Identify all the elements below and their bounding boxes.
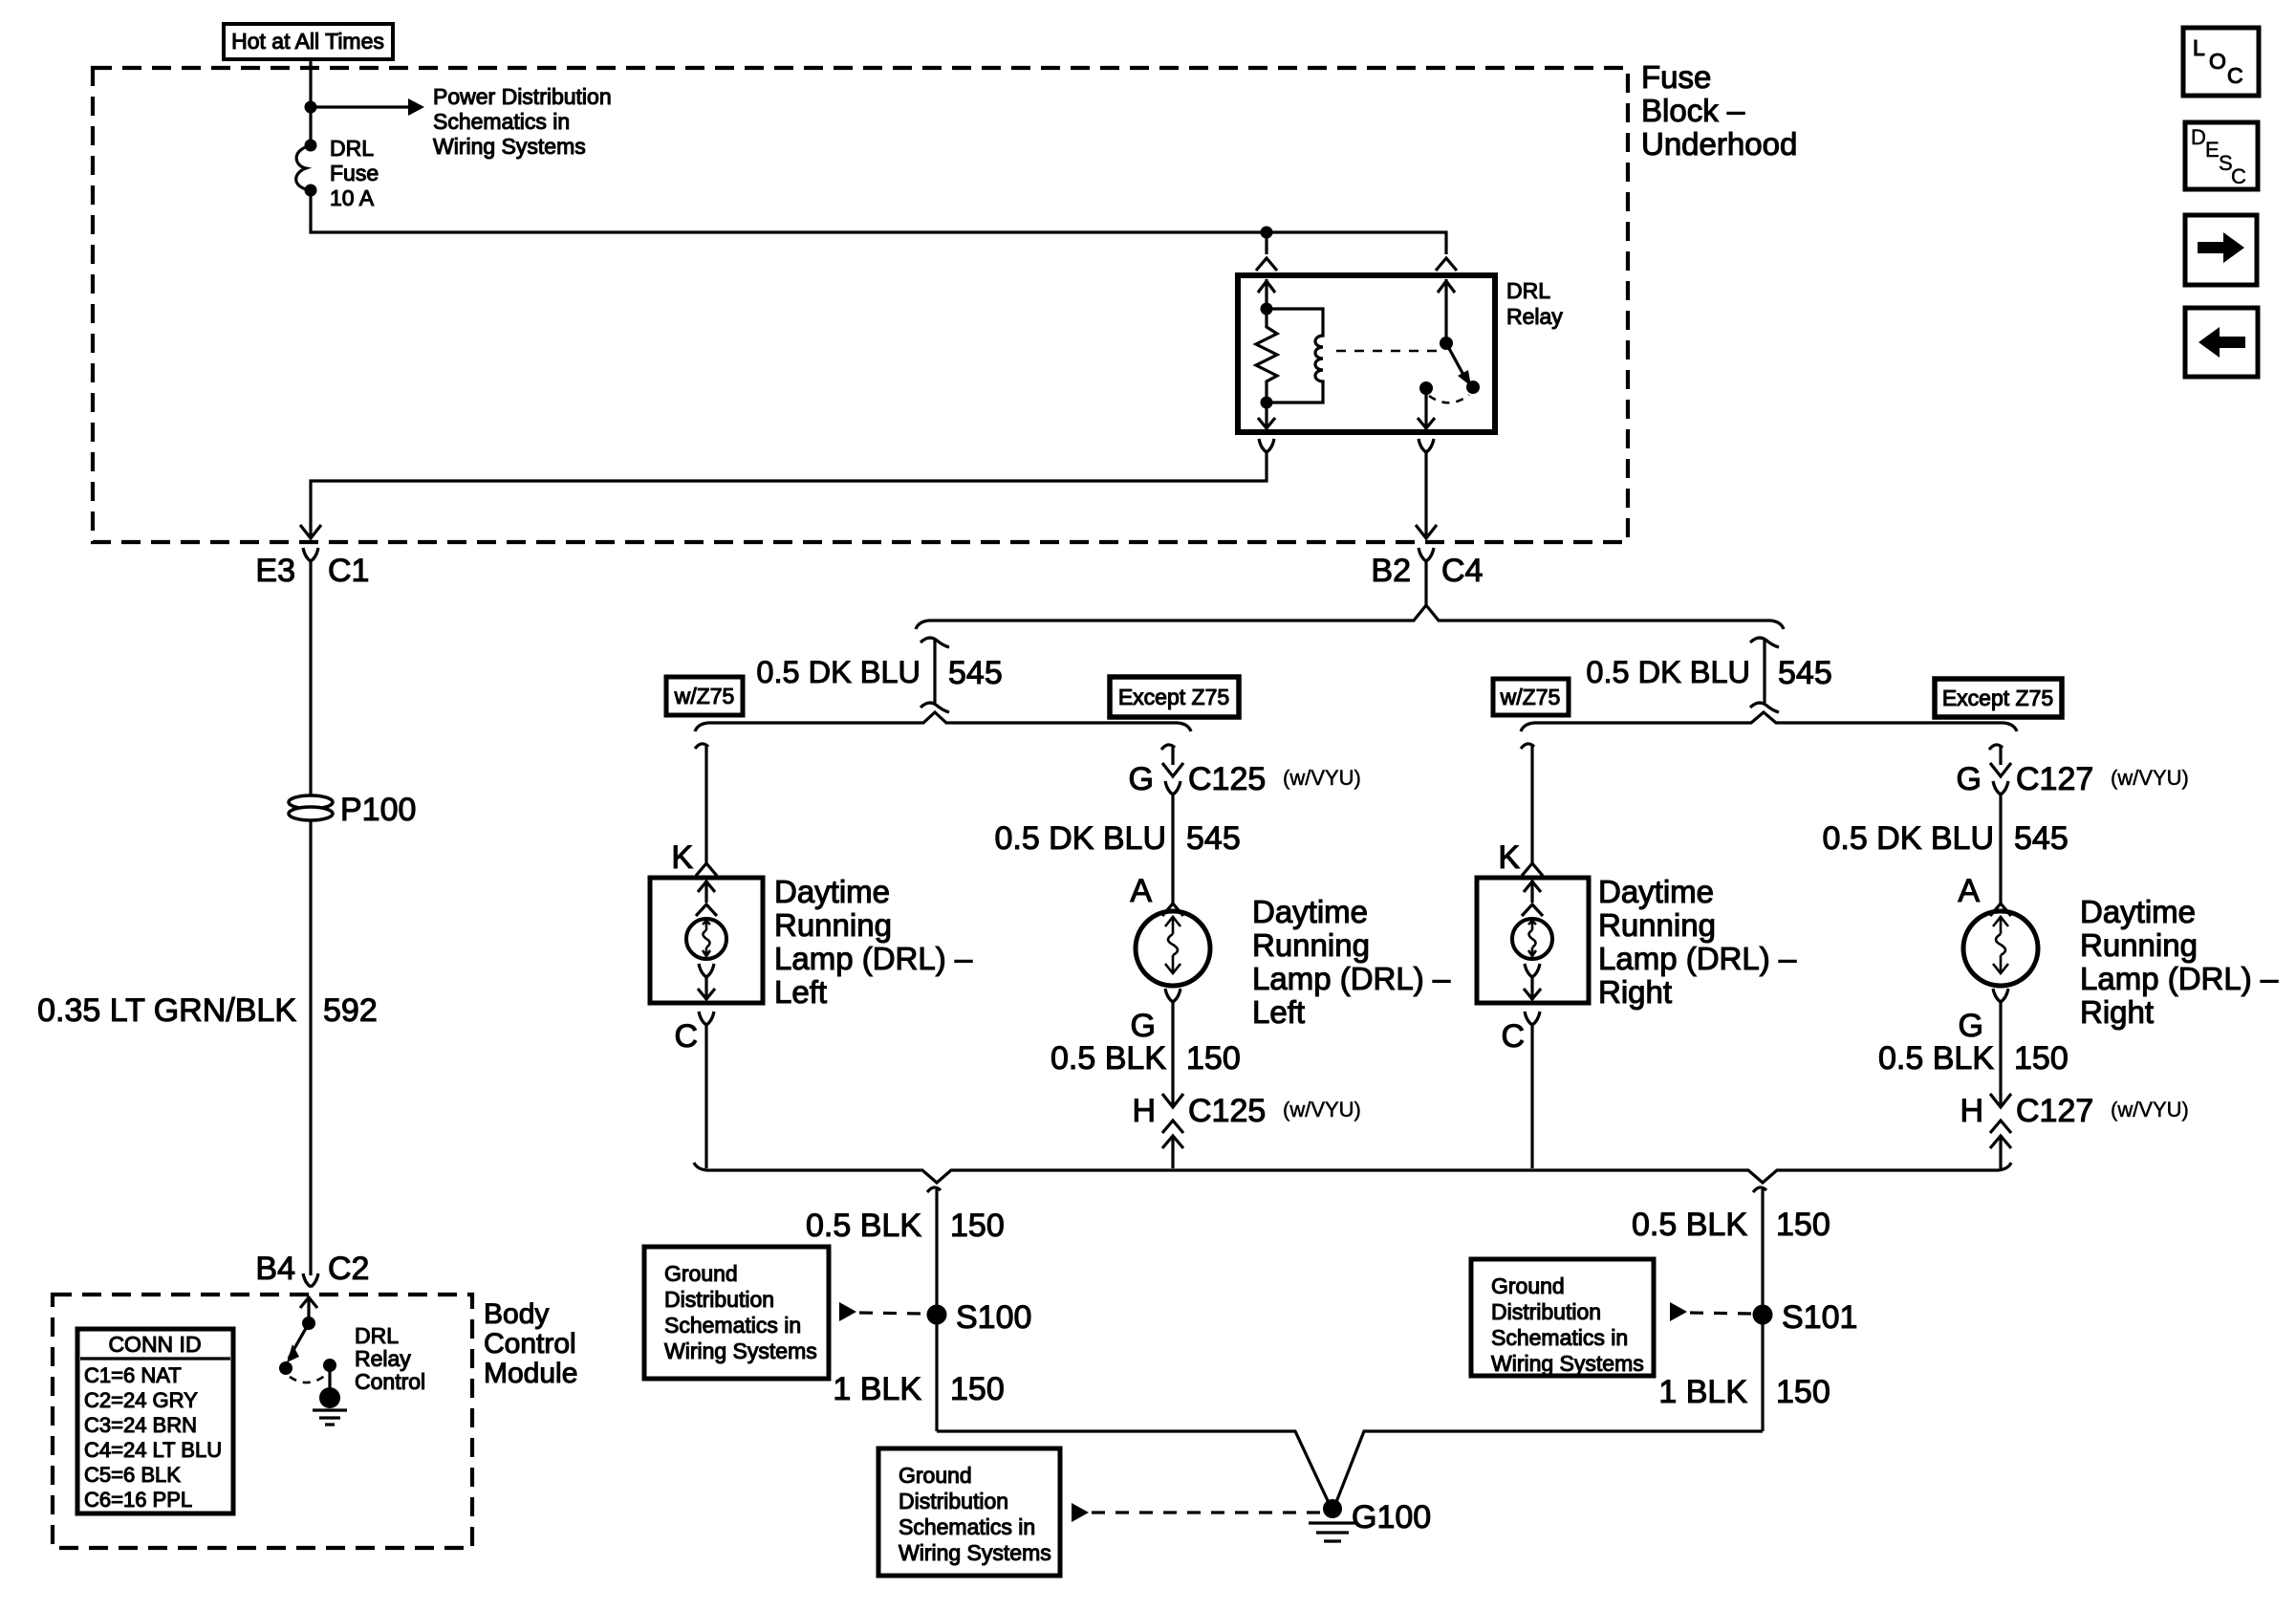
svg-text:Control: Control — [484, 1328, 576, 1360]
svg-text:G: G — [1131, 1008, 1156, 1044]
connector C127 arrowhead H — [1990, 1094, 2011, 1107]
svg-text:Left: Left — [774, 974, 827, 1010]
svg-text:C4=24 LT BLU: C4=24 LT BLU — [84, 1438, 222, 1462]
bulb circle left lamp — [686, 919, 726, 959]
svg-text:C4: C4 — [1441, 553, 1483, 589]
connector chevron above relay coil pin — [1256, 258, 1277, 271]
connector C125 double chevron — [1162, 1121, 1183, 1148]
svg-text:G: G — [1959, 1008, 1983, 1044]
svg-text:w/Z75: w/Z75 — [1500, 685, 1561, 709]
connector fork below bulb G right — [1993, 989, 2008, 1002]
svg-text:0.5 DK BLU: 0.5 DK BLU — [756, 655, 921, 689]
BCM switch contact node left — [279, 1361, 292, 1375]
relay internal junction bottom — [1261, 397, 1273, 409]
connector fork below fuse block E3/C1 — [303, 548, 318, 561]
wire S101 drop hook — [1753, 1187, 1766, 1431]
wire branch2 top hook — [1161, 745, 1175, 765]
svg-text:Hot at All Times: Hot at All Times — [231, 29, 384, 54]
connector chevron at lamp pin A — [1162, 903, 1183, 916]
bulb circle left lamp (except Z75) — [1136, 911, 1210, 986]
svg-text:0.5 BLK: 0.5 BLK — [1632, 1207, 1747, 1243]
svg-text:Daytime: Daytime — [774, 874, 890, 909]
svg-text:Relay: Relay — [355, 1346, 411, 1371]
svg-text:Fuse: Fuse — [1641, 59, 1711, 95]
lamp right inner chevron — [1522, 904, 1543, 916]
bulb circle right lamp (except Z75) — [1963, 911, 2038, 986]
wire branch3 down to ground brace — [1530, 1025, 1533, 1168]
splice S101 — [1753, 1305, 1773, 1325]
label B4 C2 — [255, 1251, 369, 1287]
svg-text:592: 592 — [323, 992, 378, 1029]
ground distribution ref box left — [644, 1247, 829, 1379]
svg-text:D: D — [2191, 125, 2206, 149]
label H C127 (w/VYU) — [1960, 1093, 2188, 1129]
svg-text:C127: C127 — [2016, 1093, 2093, 1129]
connector C127 double chevron — [1990, 1121, 2011, 1148]
svg-text:Distribution: Distribution — [1491, 1299, 1601, 1324]
svg-text:Right: Right — [2080, 994, 2154, 1030]
svg-text:H: H — [1132, 1093, 1156, 1129]
CONN ID table — [77, 1329, 233, 1513]
connector fork below right lamp C — [1525, 1012, 1540, 1025]
BCM switch arm with arrowhead — [287, 1323, 309, 1362]
svg-text:Schematics in: Schematics in — [899, 1514, 1035, 1539]
svg-text:C5=6 BLK: C5=6 BLK — [84, 1463, 181, 1487]
fuse DRL Fuse 10A — [296, 140, 317, 197]
svg-text:P100: P100 — [340, 792, 416, 828]
svg-text:O: O — [2209, 49, 2226, 74]
svg-text:C1=6 NAT: C1=6 NAT — [84, 1363, 182, 1387]
svg-text:Right: Right — [1598, 974, 1672, 1010]
svg-text:0.5 BLK: 0.5 BLK — [1051, 1040, 1166, 1077]
DRL lamp right housing box — [1477, 878, 1589, 1003]
label 0.5 BLK 150 at S101 — [1632, 1207, 1830, 1243]
BCM switch contact node right — [323, 1359, 336, 1372]
svg-text:w/Z75: w/Z75 — [674, 684, 735, 708]
svg-text:Schematics in: Schematics in — [664, 1313, 801, 1338]
svg-text:C6=16 PPL: C6=16 PPL — [84, 1488, 192, 1512]
svg-text:C: C — [674, 1018, 698, 1055]
label Daytime Running Lamp (DRL) - Right 2 — [2080, 894, 2279, 1030]
BCM switch dashed throw arc — [290, 1375, 326, 1382]
left arrow legend box — [2185, 308, 2258, 377]
wire branch2 mid — [1171, 795, 1174, 903]
svg-text:Daytime: Daytime — [1598, 874, 1714, 909]
svg-text:A: A — [1958, 873, 1980, 909]
label Daytime Running Lamp (DRL) - Right — [1598, 874, 1797, 1010]
svg-text:Running: Running — [2080, 927, 2198, 963]
connector fork below bulb G — [1165, 989, 1180, 1002]
relay coil pin 86 wire with up arrow — [1258, 279, 1275, 309]
svg-text:Schematics in: Schematics in — [433, 109, 570, 134]
svg-text:S101: S101 — [1782, 1299, 1857, 1336]
relay switch dashed throw arc — [1429, 395, 1469, 403]
DRL relay box — [1238, 275, 1495, 432]
connector C127 arrowhead G — [1990, 763, 2011, 776]
main splitter brace — [916, 605, 1784, 629]
svg-text:Fuse: Fuse — [330, 161, 379, 185]
label H C125 (w/VYU) — [1132, 1093, 1360, 1129]
svg-text:1 BLK: 1 BLK — [833, 1371, 921, 1407]
label Daytime Running Lamp (DRL) - Left — [774, 874, 973, 1010]
svg-text:150: 150 — [2014, 1040, 2069, 1077]
svg-text:0.5 DK BLU: 0.5 DK BLU — [1822, 820, 1994, 857]
label DRL Relay Control — [355, 1323, 425, 1394]
label G C127 (w/VYU) — [1957, 761, 2189, 797]
svg-text:Left: Left — [1252, 994, 1305, 1030]
ground distribution ref box bottom — [878, 1448, 1060, 1576]
svg-text:B4: B4 — [255, 1251, 295, 1287]
svg-text:Schematics in: Schematics in — [1491, 1325, 1628, 1350]
svg-text:Lamp (DRL) –: Lamp (DRL) – — [774, 941, 973, 976]
svg-text:Block –: Block – — [1641, 93, 1745, 128]
svg-text:S100: S100 — [956, 1299, 1031, 1336]
svg-text:0.5 BLK: 0.5 BLK — [1878, 1040, 1994, 1077]
label Body Control Module — [484, 1298, 577, 1389]
svg-text:DRL: DRL — [1506, 278, 1550, 303]
lamp right pin wire arrow down — [1524, 977, 1541, 1000]
label 0.5 DK BLU 545 branch2 — [994, 820, 1240, 857]
junction node at power feed — [305, 101, 317, 114]
connector C125 arrowhead G — [1162, 763, 1183, 776]
relay switch output node — [1419, 381, 1433, 395]
lamp right pin wire arrow up — [1524, 881, 1541, 903]
label DRL Fuse 10 A — [330, 136, 379, 210]
label E3 C1 — [255, 553, 369, 589]
wire from relay output to B2 — [1424, 452, 1427, 536]
svg-text:C125: C125 — [1188, 1093, 1266, 1129]
relay internal junction top — [1261, 303, 1273, 316]
svg-text:Except Z75: Except Z75 — [1118, 685, 1229, 709]
wire branch4 mid — [1999, 795, 2002, 903]
Except Z75 box right — [1935, 679, 2062, 717]
Except Z75 box left — [1110, 677, 1239, 717]
svg-text:A: A — [1130, 873, 1152, 909]
ground gathering brace — [694, 1163, 2011, 1183]
svg-text:G: G — [1129, 761, 1154, 797]
svg-text:(w/VYU): (w/VYU) — [1283, 766, 1361, 790]
wire branch4 to ground brace — [1999, 1136, 2002, 1168]
svg-text:C127: C127 — [2016, 761, 2093, 797]
wire from B2/C4 to splitter — [1424, 561, 1427, 605]
wire branch3 top hook — [1521, 744, 1534, 863]
relay switch pivot node — [1440, 337, 1453, 350]
svg-text:Ground: Ground — [664, 1261, 738, 1286]
svg-text:E: E — [2205, 138, 2220, 162]
bulb circle right lamp — [1512, 919, 1552, 959]
label 1 BLK 150 at S101 — [1658, 1374, 1830, 1410]
junction node above relay — [1261, 227, 1273, 239]
lamp right fork below bulb — [1525, 964, 1540, 977]
svg-text:C125: C125 — [1188, 761, 1266, 797]
svg-text:CONN ID: CONN ID — [108, 1332, 201, 1357]
svg-text:Daytime: Daytime — [1252, 894, 1368, 929]
svg-text:Ground: Ground — [899, 1463, 972, 1488]
connector fork below relay coil pin — [1259, 439, 1274, 452]
connector C125 fork — [1165, 781, 1180, 795]
svg-text:(w/VYU): (w/VYU) — [2111, 1098, 2189, 1121]
svg-text:Power Distribution: Power Distribution — [433, 84, 612, 109]
svg-text:150: 150 — [950, 1371, 1005, 1407]
right arrow legend box — [2185, 215, 2257, 285]
svg-text:Running: Running — [1598, 907, 1716, 943]
lamp left fork below bulb — [699, 964, 714, 977]
left feeder wire size mark — [921, 638, 949, 712]
label Power Distribution Schematics in Wiring Systems — [433, 84, 612, 159]
label Fuse Block - Underhood — [1641, 59, 1797, 162]
svg-text:H: H — [1960, 1093, 1983, 1129]
Hot at All Times box — [224, 24, 393, 59]
relay resistor — [1256, 309, 1277, 403]
right feeder wire size mark — [1750, 638, 1779, 712]
relay coil — [1267, 309, 1323, 403]
svg-text:0.5 BLK: 0.5 BLK — [806, 1208, 921, 1244]
svg-text:C1: C1 — [328, 553, 369, 589]
label G C125 (w/VYU) — [1129, 761, 1361, 797]
relay switch common pin wire — [1438, 279, 1455, 343]
svg-text:C: C — [2227, 63, 2243, 88]
svg-text:(w/VYU): (w/VYU) — [1283, 1098, 1361, 1121]
DRL lamp left housing box — [650, 878, 763, 1003]
lamp left pin wire arrow down — [698, 977, 715, 1000]
wire arrow to Power Distribution reference — [311, 105, 408, 108]
LOC legend box — [2183, 28, 2259, 96]
svg-text:Lamp (DRL) –: Lamp (DRL) – — [1598, 941, 1797, 976]
label 0.5 DK BLU 545 right — [1586, 655, 1831, 691]
svg-text:C3=24 BRN: C3=24 BRN — [84, 1413, 197, 1437]
label 0.5 BLK 150 branch2 — [1051, 1040, 1241, 1077]
svg-text:150: 150 — [1776, 1207, 1830, 1243]
connector fork below left lamp C — [699, 1012, 714, 1025]
wire S101 to G100 — [1334, 1431, 1763, 1507]
svg-text:Distribution: Distribution — [899, 1489, 1008, 1513]
bulb filament left lamp — [703, 921, 710, 956]
connector fork at BCM B4/C2 — [303, 1274, 318, 1287]
BCM internal ground — [313, 1365, 347, 1425]
svg-text:L: L — [2193, 35, 2205, 60]
bulb filament right lamp — [1528, 921, 1536, 956]
svg-text:Except Z75: Except Z75 — [1942, 686, 2053, 710]
svg-text:0.35 LT GRN/BLK: 0.35 LT GRN/BLK — [37, 992, 296, 1029]
svg-text:C: C — [2231, 164, 2246, 188]
right pair splitter brace — [1521, 712, 2017, 731]
svg-text:Body: Body — [484, 1298, 549, 1330]
svg-text:E3: E3 — [255, 553, 295, 589]
svg-text:150: 150 — [1776, 1374, 1830, 1410]
dashed arrow to S100 — [839, 1302, 926, 1321]
w/Z75 box right — [1493, 679, 1569, 715]
dashed arrow to G100 — [1072, 1503, 1321, 1522]
connector fork below fuse block B2/C4 — [1419, 548, 1434, 561]
wire branch2 lower — [1171, 1002, 1174, 1107]
BCM switch pivot node — [302, 1317, 315, 1330]
wire branch1 top hook — [695, 744, 708, 863]
connector C125 arrowhead H — [1162, 1094, 1183, 1107]
svg-text:Relay: Relay — [1506, 304, 1563, 329]
connector fork at lamp pin K left — [696, 863, 717, 876]
svg-text:10 A: 10 A — [330, 185, 375, 210]
svg-text:Control: Control — [355, 1369, 425, 1394]
label B2 C4 — [1371, 553, 1483, 589]
svg-text:545: 545 — [1186, 820, 1241, 857]
svg-text:Running: Running — [774, 907, 892, 943]
relay output wire arrow down — [1418, 388, 1435, 429]
label 0.5 BLK 150 branch4 — [1878, 1040, 2069, 1077]
wire S100 to G100 — [937, 1431, 1331, 1507]
svg-text:Distribution: Distribution — [664, 1287, 774, 1312]
wire stub to relay coil pin — [1265, 232, 1267, 254]
svg-text:0.5 DK BLU: 0.5 DK BLU — [1586, 655, 1750, 689]
wire from relay pin 85 to BCM feed — [311, 452, 1267, 536]
svg-text:G: G — [1957, 761, 1982, 797]
bulb filament left lamp (except Z75) — [1165, 916, 1180, 973]
relay switch arm with arrowhead — [1446, 343, 1471, 386]
svg-text:K: K — [671, 839, 693, 876]
wire branch1 down to ground brace — [704, 1025, 707, 1168]
lamp left pin wire arrow up — [698, 881, 715, 903]
svg-text:DRL: DRL — [355, 1323, 399, 1348]
svg-text:Wiring Systems: Wiring Systems — [899, 1540, 1051, 1565]
svg-text:C2: C2 — [328, 1251, 369, 1287]
relay switch NO contact node — [1466, 381, 1480, 394]
relay coil output arrow down — [1258, 403, 1275, 429]
DESC legend box — [2185, 122, 2258, 189]
fuse block underhood dashed boundary — [93, 68, 1628, 542]
svg-text:Module: Module — [484, 1358, 577, 1389]
relay mechanical dashed link — [1336, 350, 1438, 353]
wire branch4 top hook — [1989, 745, 2003, 765]
svg-text:B2: B2 — [1371, 553, 1411, 589]
label 0.5 DK BLU 545 left — [756, 655, 1002, 691]
connector C127 fork — [1993, 781, 2008, 795]
svg-text:150: 150 — [1186, 1040, 1241, 1077]
svg-text:Lamp (DRL) –: Lamp (DRL) – — [2080, 961, 2279, 996]
label 0.35 LT GRN/BLK 592 — [37, 992, 378, 1029]
svg-text:Underhood: Underhood — [1641, 126, 1797, 162]
svg-text:Ground: Ground — [1491, 1274, 1565, 1298]
BCM dashed boundary — [53, 1295, 472, 1548]
connector arrowhead at fuse block exit E3 — [300, 525, 321, 538]
svg-text:(w/VYU): (w/VYU) — [2111, 766, 2189, 790]
label 0.5 BLK 150 at S100 — [806, 1208, 1005, 1244]
connector arrowhead at fuse block exit B2 — [1416, 525, 1437, 538]
svg-text:0.5 DK BLU: 0.5 DK BLU — [994, 820, 1166, 857]
svg-text:545: 545 — [948, 655, 1003, 691]
label DRL Relay — [1506, 278, 1563, 329]
wire branch4 lower — [1999, 1002, 2002, 1107]
svg-text:C: C — [1501, 1018, 1525, 1055]
w/Z75 box left — [666, 677, 743, 715]
inline connector P100 — [289, 795, 333, 820]
wire S100 drop hook — [927, 1187, 941, 1431]
splice S100 — [927, 1305, 947, 1325]
svg-text:Wiring Systems: Wiring Systems — [433, 134, 586, 159]
svg-text:Wiring Systems: Wiring Systems — [1491, 1351, 1644, 1376]
svg-text:K: K — [1498, 839, 1520, 876]
left pair splitter brace — [695, 712, 1191, 731]
connector chevron above relay switch pin — [1436, 258, 1457, 271]
ground G100 — [1309, 1499, 1356, 1541]
svg-text:1 BLK: 1 BLK — [1658, 1374, 1747, 1410]
svg-text:545: 545 — [2014, 820, 2069, 857]
svg-text:150: 150 — [950, 1208, 1005, 1244]
svg-text:Running: Running — [1252, 927, 1370, 963]
wire E3/C1 down to BCM — [309, 561, 312, 1275]
connector chevron at lamp pin A right — [1990, 903, 2011, 916]
label Daytime Running Lamp (DRL) - Left 2 — [1252, 894, 1451, 1030]
label 0.5 DK BLU 545 branch4 — [1822, 820, 2068, 857]
connector fork at lamp pin K right — [1522, 863, 1543, 876]
label 1 BLK 150 at S100 — [833, 1371, 1004, 1407]
svg-text:C2=24 GRY: C2=24 GRY — [84, 1388, 198, 1412]
lamp left inner chevron — [696, 904, 717, 916]
svg-text:Wiring Systems: Wiring Systems — [664, 1339, 817, 1363]
svg-text:545: 545 — [1778, 655, 1832, 691]
wire branch2 to ground brace — [1171, 1136, 1174, 1168]
ground distribution ref box right — [1471, 1259, 1654, 1376]
svg-text:Lamp (DRL) –: Lamp (DRL) – — [1252, 961, 1451, 996]
svg-text:DRL: DRL — [330, 136, 374, 161]
bulb filament right lamp (except Z75) — [1993, 916, 2008, 973]
svg-text:Daytime: Daytime — [2080, 894, 2196, 929]
dashed arrow to S101 — [1670, 1302, 1752, 1321]
connector fork below relay output pin — [1419, 439, 1434, 452]
BCM input wire arrow up — [300, 1296, 317, 1323]
wire from Hot at All Times down to fuse — [309, 59, 312, 145]
svg-text:G100: G100 — [1352, 1499, 1431, 1535]
wire from fuse to relay pins — [311, 190, 1446, 254]
